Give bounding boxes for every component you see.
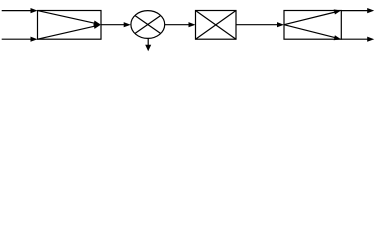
mixer U1 [131, 11, 165, 39]
block B3 [284, 11, 341, 40]
B3 internal arrow bottom [284, 25, 341, 41]
B1 internal arrow bottom [38, 24, 101, 39]
block B1 [38, 11, 102, 40]
wire B1 to mixer [101, 22, 131, 27]
B2 diagonal 1 [196, 11, 237, 40]
output arrow top [341, 8, 374, 13]
B2 diagonal 2 [196, 11, 237, 40]
B3 internal arrow top [284, 9, 341, 24]
wire B2 to B3 [236, 22, 284, 27]
wire mixer to B2 [165, 22, 196, 27]
B1 internal arrow top [38, 11, 101, 26]
block B2 [196, 11, 237, 40]
output arrow bottom [341, 37, 374, 42]
mixer output arrow down [145, 38, 151, 51]
input arrow top [2, 8, 38, 13]
input arrow bottom [2, 37, 38, 42]
